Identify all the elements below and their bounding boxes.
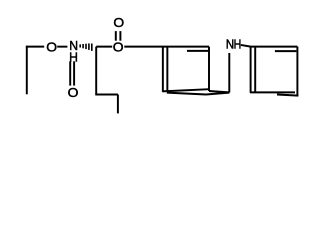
wire ring 1 bottom double bond companion line	[167, 93, 206, 95]
wire propyl CH2-CH2 bond (horizontal)	[95, 94, 118, 96]
wire O1 to N bond	[57, 46, 67, 48]
wire ester O4 to benzene ring 1 bond plus ring 1 top edge	[124, 46, 209, 48]
wire N=O2 double bond line 1	[69, 61, 71, 85]
wire ring 2 bottom double bond companion line	[277, 95, 298, 96]
wire N=O2 double bond line 2	[73, 61, 75, 85]
wire C=O3 carbonyl double bond line 1	[115, 31, 117, 41]
svg-text:O: O	[46, 40, 57, 54]
wire ring 1 bottom edge	[162, 89, 209, 91]
wire ring 2 left edge double bond inner line	[254, 47, 256, 93]
wire propyl CH2-CH3 bond (vertical tail)	[117, 95, 119, 114]
wire ethyl CH2 to ether O1 bond	[26, 46, 44, 48]
wire C=O3 carbonyl double bond line 2	[119, 31, 121, 41]
wire ring 1 left edge double bond outer line	[162, 47, 164, 92]
wire ring 2 top edge inner double bond line	[275, 50, 297, 52]
wire ring 1 top edge inner double bond line	[187, 50, 209, 52]
wire ring 1 left edge double bond inner line	[166, 47, 168, 92]
wire ring 1 right edge	[208, 47, 210, 91]
wire stereocenter C to propyl CH2 bond (vertical)	[95, 47, 97, 95]
svg-text:H: H	[69, 50, 78, 64]
wire stereocenter C to ester O4 bond	[96, 46, 112, 48]
wire ring 2 bottom edge	[250, 91, 295, 93]
svg-text:O: O	[113, 40, 124, 54]
wire ring 1 to benzylic CH2 bond lower	[206, 93, 229, 95]
wire ring 2 left edge double bond outer line	[250, 47, 252, 93]
wire ring 1 to benzylic CH2 bond upper	[209, 91, 229, 92]
wire ring 2 right edge	[296, 47, 298, 96]
wire ethyl CH3-CH2 bond (vertical)	[26, 46, 28, 95]
svg-text:H: H	[234, 36, 242, 51]
svg-text:O: O	[68, 86, 79, 100]
wire NH to benzene ring 2 bond plus ring 2 top edge	[241, 45, 298, 47]
wire hashed wedge stereo bond N to C (5 ticks)	[79, 44, 81, 47]
svg-text:O: O	[113, 15, 124, 29]
wire benzylic CH2 to NH bond (vertical)	[228, 53, 230, 93]
